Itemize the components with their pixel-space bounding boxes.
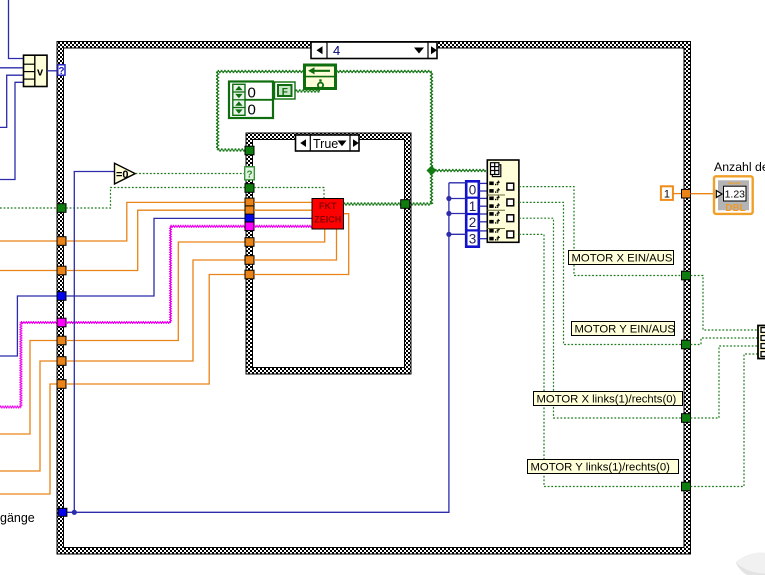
case structure (inner True) border bbox=[246, 133, 411, 374]
wire blue up to equals-zero bbox=[74, 172, 114, 513]
svg-text:MOTOR Y links(1)/rechts(0): MOTOR Y links(1)/rechts(0) bbox=[531, 462, 671, 474]
tunnel T1 green bbox=[57, 204, 66, 213]
tunnel T8 orange bbox=[57, 380, 66, 389]
wire blue input 1 bbox=[9, 0, 24, 59]
boolean array constant F bbox=[275, 82, 296, 99]
wire green dotted R1 to right node bbox=[691, 276, 759, 331]
tunnel T3 orange bbox=[57, 266, 66, 275]
tunnel inner orange 1 bbox=[245, 198, 254, 207]
junction dots blue riser bbox=[446, 196, 451, 201]
wire orange inside from T2 bbox=[66, 202, 245, 241]
tunnel inner orange 5 bbox=[245, 270, 254, 279]
wire orange to FKT in2 bbox=[254, 209, 312, 211]
label MOTOR X EIN/AUS bbox=[569, 251, 674, 265]
wire green dotted R3 to right node bbox=[691, 346, 759, 418]
tunnel right green R3 bbox=[682, 414, 691, 423]
wire green dotted output2 bbox=[519, 202, 681, 344]
tunnel inner green 2 bbox=[245, 184, 254, 193]
wire gate output to selector tunnel bbox=[47, 70, 58, 72]
outer case selector label 4 bbox=[311, 42, 437, 59]
tunnel T7 orange bbox=[57, 357, 66, 366]
wire green dotted =0 output to inner selector bbox=[136, 173, 245, 175]
tunnel T2 orange bbox=[57, 237, 66, 246]
wire orange inside from T7 bbox=[66, 260, 245, 361]
subVI FKT ZEICH bbox=[312, 199, 344, 230]
wire green dotted output4 bbox=[519, 234, 681, 486]
wire magenta inside from T5 bbox=[66, 226, 245, 322]
svg-text:?: ? bbox=[58, 66, 64, 77]
wire orange inside from T3 bbox=[66, 210, 245, 270]
clipped node at right edge bbox=[758, 326, 765, 359]
wire magenta from left edge to tunnel T5 bbox=[0, 323, 57, 408]
wire orange tunnel to indicator bbox=[691, 193, 715, 195]
wire blue to FKT in3 bbox=[254, 217, 312, 219]
wire green dotted output1 bbox=[519, 187, 681, 276]
wire blue input 2 bbox=[0, 67, 24, 69]
tunnel inner orange 3 bbox=[245, 238, 254, 247]
svg-text:1.23: 1.23 bbox=[725, 189, 746, 201]
blue array constant 0 1 2 3 bbox=[466, 181, 479, 246]
wire blue stubs array constant to node inputs bbox=[479, 182, 488, 184]
tunnel inner orange 2 bbox=[245, 206, 254, 215]
wire orange to FKT right side bbox=[254, 214, 349, 275]
page curl decoration bottom right bbox=[736, 553, 765, 575]
svg-text:2: 2 bbox=[469, 215, 477, 230]
wire blue main bottom bbox=[67, 183, 449, 513]
wire blue from left edge to tunnel T4 bbox=[0, 296, 57, 356]
wire green dotted R4 to right node bbox=[691, 354, 759, 487]
inner case selector label True bbox=[296, 135, 360, 151]
tunnel inner blue bbox=[245, 214, 254, 223]
tunnel right green R4 bbox=[682, 482, 691, 491]
svg-text:0: 0 bbox=[248, 102, 256, 119]
numeric constant 1 bbox=[661, 186, 673, 200]
compound arithmetic OR node bbox=[24, 55, 48, 86]
label MOTOR Y EIN/AUS bbox=[572, 322, 676, 336]
case structure (outer) border bbox=[57, 42, 691, 555]
wire orange inside from T8 bbox=[66, 275, 245, 385]
svg-text:1: 1 bbox=[469, 199, 477, 214]
feedback node bbox=[305, 65, 336, 89]
svg-text:MOTOR X EIN/AUS: MOTOR X EIN/AUS bbox=[572, 253, 673, 265]
svg-text:0: 0 bbox=[248, 85, 256, 102]
tunnel inner green feedback input bbox=[245, 146, 254, 155]
wire magenta to FKT in4 bbox=[254, 225, 312, 227]
inner case selector tunnel ? bbox=[245, 167, 255, 181]
wire blue inside from T4 bbox=[66, 218, 245, 296]
wire green ribbed feedback output to right bbox=[336, 72, 432, 205]
wire green ribbed branch to index node bbox=[432, 170, 487, 172]
svg-text:?: ? bbox=[246, 169, 252, 180]
svg-text:MOTOR X links(1)/rechts(0): MOTOR X links(1)/rechts(0) bbox=[537, 394, 677, 406]
wire green dotted inner to FKT top bbox=[254, 188, 324, 199]
wire green dotted inside from T1 bbox=[66, 188, 245, 209]
svg-text:Anzahl de: Anzahl de bbox=[714, 160, 765, 174]
svg-text:F: F bbox=[282, 87, 288, 98]
wire orange from left edge to tunnel T7 bbox=[0, 361, 57, 471]
svg-text:FKT: FKT bbox=[319, 201, 337, 211]
wire orange to FKT bottom 1 bbox=[254, 229, 325, 242]
label MOTOR Y links(1)/rechts(0) bbox=[528, 460, 679, 474]
wire blue input 3 bbox=[0, 75, 24, 127]
svg-text:gänge: gänge bbox=[0, 511, 35, 525]
wire orange constant to tunnel bbox=[673, 193, 682, 195]
wire orange inside from T6 bbox=[66, 242, 245, 341]
tunnel right green R1 bbox=[682, 271, 691, 280]
svg-text:1: 1 bbox=[664, 188, 670, 200]
tunnel inner orange 4 bbox=[245, 256, 254, 265]
svg-text:0: 0 bbox=[469, 182, 477, 197]
wire green ribbed FKT output through inner tunnel bbox=[344, 203, 402, 205]
wire orange from left edge to tunnel T3 bbox=[0, 270, 57, 272]
wire orange from left edge to tunnel T6 bbox=[0, 341, 57, 435]
numeric indicator DBL bbox=[714, 176, 753, 214]
boolean index node bbox=[487, 160, 519, 242]
wire orange to FKT bottom 2 bbox=[254, 229, 337, 260]
wire blue stubs from riser to array constant bbox=[449, 182, 467, 184]
junction diamond green bbox=[427, 166, 437, 176]
numeric array constant 0 0 bbox=[229, 82, 273, 119]
svg-text:v: v bbox=[37, 67, 44, 79]
wire orange from left edge to tunnel T2 bbox=[0, 240, 57, 242]
wire green boolean-array ribbed from feedback output going left-down bbox=[218, 72, 304, 151]
equals zero comparison node =0? bbox=[115, 163, 136, 184]
svg-text:4: 4 bbox=[333, 43, 340, 58]
wire green dotted to tunnel T1 bbox=[0, 207, 57, 209]
case selector tunnel ? bbox=[58, 65, 65, 77]
tunnel inner-right green bbox=[401, 200, 410, 209]
tunnel inner magenta bbox=[245, 222, 254, 231]
label MOTOR X links(1)/rechts(0) bbox=[534, 392, 683, 406]
svg-text:ZEICH: ZEICH bbox=[314, 215, 341, 225]
wire blue input 4 bbox=[0, 82, 24, 179]
wire orange from left edge to tunnel T8 bbox=[0, 384, 57, 494]
svg-text:MOTOR Y EIN/AUS: MOTOR Y EIN/AUS bbox=[575, 324, 676, 336]
wire green ribbed F to feedback initializer bbox=[296, 90, 321, 92]
svg-text:3: 3 bbox=[469, 232, 477, 247]
svg-text:True: True bbox=[313, 137, 338, 151]
tunnel T5 magenta bbox=[57, 318, 66, 327]
svg-text:DBL: DBL bbox=[725, 203, 746, 214]
wire green dotted R2 to right node bbox=[691, 338, 759, 345]
wire green dotted output3 bbox=[519, 218, 681, 418]
svg-text:=0: =0 bbox=[116, 169, 129, 181]
wire orange to FKT in1 bbox=[254, 201, 312, 203]
tunnel T4 blue bbox=[57, 292, 66, 301]
junction dot blue bottom bbox=[72, 510, 77, 515]
tunnel right green R2 bbox=[682, 340, 691, 349]
tunnel T6 orange bbox=[57, 336, 66, 345]
tunnel right orange bbox=[682, 189, 691, 198]
